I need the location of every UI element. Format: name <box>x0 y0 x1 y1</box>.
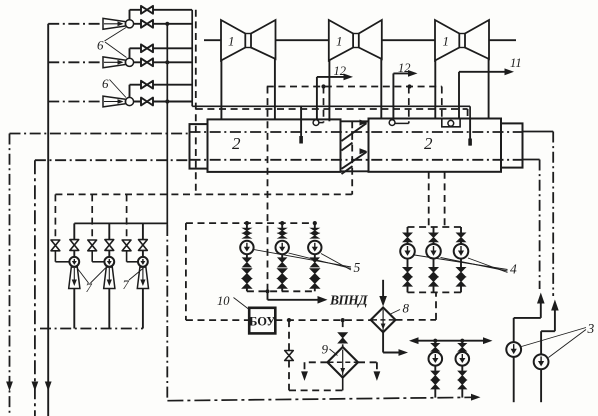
wire: cooler 8 to pumps 4 dashed <box>396 292 437 320</box>
wire: turbine 1 exhaust right <box>274 59 276 119</box>
label 8 with leader <box>391 301 410 316</box>
wire: turbine 3 exhaust left <box>434 61 436 119</box>
ejector 6c with valves <box>48 81 192 107</box>
wire: cooler 9 left outlet <box>301 362 327 381</box>
wire: vacuum manifold dashed <box>267 84 442 88</box>
label 9 with leader <box>322 342 338 357</box>
pipe 12 of condenser 2 <box>393 70 417 121</box>
cooler 8 diamond <box>371 308 396 333</box>
wire: turbine 2 exhaust right <box>380 59 382 119</box>
valve above cooler 9 <box>338 320 347 347</box>
label 10 with leader <box>217 294 249 309</box>
wire: air header dashed <box>196 109 468 119</box>
wire: manifold drop into condenser 2b <box>442 87 460 127</box>
svg-text:4: 4 <box>510 262 517 277</box>
svg-text:6: 6 <box>97 38 104 53</box>
wire: dashed enclosure bottom <box>55 193 351 195</box>
condenser 2 (right unit) <box>369 119 502 172</box>
pump 4c with valves <box>454 227 469 292</box>
wire: cooler 9 right outlet <box>358 362 380 381</box>
pump 7b with valves and diffuser <box>88 194 115 328</box>
circ pump 3b <box>534 300 559 403</box>
condenser 2 (left unit) <box>208 119 341 171</box>
label 12 (left) <box>334 64 347 78</box>
circ pump 3a <box>506 293 544 403</box>
wire: circ outfall line A <box>6 134 13 416</box>
svg-text:7: 7 <box>123 278 130 292</box>
label ВПНД <box>329 293 368 308</box>
wire: dashed box around pumps 5 <box>185 223 187 320</box>
svg-text:1: 1 <box>443 34 450 49</box>
wire: circ riser right A <box>552 132 554 297</box>
label 7 (right) with leader <box>123 268 144 292</box>
label 11 <box>510 56 522 70</box>
turbine 3 <box>435 20 489 61</box>
wire: pumps 5 suction header dashed <box>186 222 315 224</box>
label 6 (upper) with leaders <box>97 28 127 58</box>
wire: duct diagonal tie lower <box>342 148 368 174</box>
wire: condensate to LPH <box>268 291 328 303</box>
wire: duct diagonal tie upper <box>342 120 368 151</box>
svg-text:6: 6 <box>102 76 109 91</box>
svg-text:БОУ: БОУ <box>249 315 275 329</box>
svg-text:3: 3 <box>587 321 595 336</box>
unit 10 БОУ box <box>249 308 275 334</box>
wire: drain branch dashed <box>285 320 343 390</box>
svg-text:10: 10 <box>217 294 230 308</box>
nozzle hatch condenser 2b <box>448 120 454 126</box>
wire: air line dashed riser <box>195 10 197 195</box>
recirc pump b with valves <box>456 341 470 398</box>
turbine 2 <box>329 20 382 61</box>
ejector 6b with valves <box>48 44 192 67</box>
wire: air header solid <box>192 106 470 118</box>
wire: circ water tube upper <box>10 132 554 134</box>
wire: inter-condenser duct bottom <box>341 170 369 172</box>
label 4 with leaders <box>415 255 518 277</box>
svg-text:1: 1 <box>228 34 235 49</box>
wire: dip tube into condenser 2 <box>469 119 471 146</box>
wire: pumps 7 suction header <box>74 222 167 224</box>
pump 5b with valves <box>276 221 289 291</box>
wire: condenser 1 condensate centerline <box>265 87 269 294</box>
svg-text:9: 9 <box>322 342 329 357</box>
wire: dip tube into condenser 1 <box>300 106 302 143</box>
condenser 2 right flange <box>501 123 523 167</box>
wire: cooler 8 outlet <box>383 332 408 356</box>
wire: manifold drop into condenser 2a <box>395 87 409 124</box>
wire: pumps 4 suction header dashed <box>408 226 462 228</box>
wire: cooler 9 bottom drain <box>342 378 344 391</box>
wire: inter-condenser duct top <box>341 120 369 122</box>
wire: turbine 2 exhaust left <box>328 61 330 122</box>
label 12 (right) <box>398 61 411 75</box>
ejector 6a with valves <box>48 6 192 29</box>
svg-text:2: 2 <box>232 134 241 153</box>
wire: pumps 7 discharge header <box>40 328 143 330</box>
cooler 9 diamond <box>327 347 358 378</box>
wire: condensate drops to pumps 4 <box>429 172 445 227</box>
wire: БОУ outlet dashed <box>275 318 370 322</box>
pump 7a with valves and diffuser <box>51 194 80 328</box>
wire: turbine 1 exhaust left <box>220 61 222 120</box>
condenser 2 left flange <box>190 124 208 169</box>
wire: inlet into cooler 8 <box>379 280 387 307</box>
wire: air line solid riser <box>191 10 193 107</box>
svg-text:7: 7 <box>86 281 93 295</box>
pipe 11 outlet <box>459 68 514 119</box>
svg-text:ВПНД: ВПНД <box>329 293 368 308</box>
label 5 with leaders <box>254 250 361 276</box>
wire: pumps 4 discharge header dashed <box>408 291 462 293</box>
pump 5a with valves <box>240 221 253 291</box>
svg-text:11: 11 <box>510 56 522 70</box>
label 6 (lower) with leader <box>102 76 126 98</box>
pump 5c with valves <box>308 221 321 291</box>
label 7 (left) with leaders <box>78 268 106 295</box>
wire: circ riser right B <box>539 160 541 290</box>
wire: ejector water supply line <box>45 24 52 416</box>
wire: circ outfall line B <box>32 160 39 416</box>
wire: recirc upper line <box>409 337 493 344</box>
wire: circ water tube lower <box>35 159 540 162</box>
svg-text:1: 1 <box>336 34 343 49</box>
wire: bottom condensate line <box>167 394 480 401</box>
pump 4b with valves <box>426 227 441 292</box>
nozzle circle condenser 2a <box>389 120 395 126</box>
turbine 1 <box>221 20 276 61</box>
recirc pump a with valves <box>429 341 443 398</box>
wire: pumps 5 discharge header dashed <box>247 290 315 292</box>
wire: ejector suction collector <box>165 22 169 401</box>
svg-text:12: 12 <box>334 64 347 78</box>
svg-text:5: 5 <box>354 260 361 275</box>
wire: manifold drop into condenser 1a <box>319 87 323 123</box>
wire: main steam header into turbines <box>204 39 516 41</box>
node: inter-condenser centerline <box>351 121 353 194</box>
pipe 12 of condenser 1 <box>317 74 353 121</box>
svg-text:12: 12 <box>398 61 411 75</box>
label 3 with leaders <box>522 321 595 358</box>
pump 4a with valves <box>400 227 415 292</box>
svg-text:2: 2 <box>424 134 433 153</box>
pump 7c with valves and diffuser <box>122 194 148 328</box>
nozzle circle condenser 1 <box>313 120 319 126</box>
wire: turbine 3 exhaust right <box>488 59 490 119</box>
svg-text:8: 8 <box>403 301 410 316</box>
wire: БОУ inlet dashed <box>186 319 249 321</box>
